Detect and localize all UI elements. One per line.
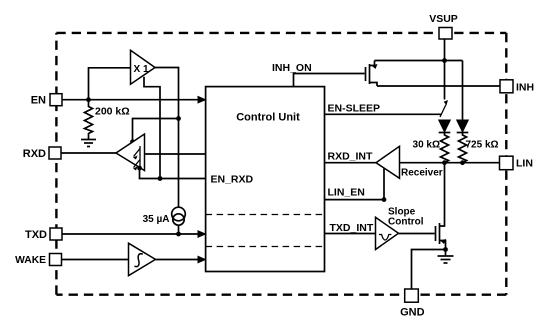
pin INH <box>500 80 534 94</box>
svg-text:RXD_INT: RXD_INT <box>328 151 374 163</box>
wire transistor source to INH pin <box>377 85 500 87</box>
wire LIN node line <box>400 162 500 164</box>
svg-text:TXD: TXD <box>25 229 47 241</box>
svg-text:LIN_EN: LIN_EN <box>328 187 365 199</box>
svg-text:VSUP: VSUP <box>429 13 458 25</box>
pin RXD <box>23 147 61 160</box>
svg-text:Receiver: Receiver <box>401 168 443 179</box>
svg-text:Control: Control <box>388 217 424 228</box>
wire EN-SLEEP from control unit to switch <box>325 103 442 115</box>
junction node EN_RXD / line A <box>158 176 163 181</box>
wire INH_ON from control unit to transistor gate <box>272 62 365 87</box>
slope control driver <box>376 207 424 250</box>
schmitt trigger wake filter <box>129 243 156 276</box>
svg-text:TXD_INT: TXD_INT <box>330 222 374 234</box>
svg-text:EN: EN <box>31 95 46 107</box>
pin WAKE <box>15 254 61 267</box>
junction node on EN line <box>86 97 91 102</box>
junction node driver bottom <box>137 166 142 171</box>
junction node LIN_EN <box>382 197 387 202</box>
pin GND <box>400 289 425 319</box>
resistor 30 kOhm <box>413 133 449 163</box>
receiver comparator <box>376 146 443 178</box>
pin VSUP <box>429 13 458 39</box>
svg-text:INH: INH <box>516 82 534 94</box>
resistor 200 kOhm <box>85 100 130 140</box>
wire current source to TXD line <box>178 225 180 234</box>
control unit partition dashed line 2 <box>206 246 325 248</box>
svg-text:X 1: X 1 <box>134 64 149 75</box>
junction node on line B <box>176 116 181 121</box>
transistor LIN low-side driver <box>436 164 447 249</box>
ground for 200k resistor <box>81 140 96 147</box>
wire schmitt output to control unit with arrowhead <box>156 256 206 262</box>
wire TXD to control unit with arrowhead <box>62 231 205 237</box>
svg-text:200 kΩ: 200 kΩ <box>95 106 130 118</box>
junction node on TXD line <box>176 232 181 237</box>
svg-text:EN_RXD: EN_RXD <box>211 174 254 186</box>
svg-text:WAKE: WAKE <box>15 255 46 266</box>
svg-text:35 µA: 35 µA <box>143 214 170 225</box>
wire transistor drain rail along top <box>375 60 463 62</box>
junction node VSUP / drain rail <box>442 58 447 63</box>
pin EN <box>31 94 62 107</box>
resistor 725 kOhm <box>459 133 499 163</box>
wire VSUP down to switch <box>444 39 446 100</box>
current source 35 uA <box>143 207 186 225</box>
junction node 30k / LIN <box>442 160 447 165</box>
junction node on RXD driver top edge <box>130 139 135 144</box>
control unit U1 <box>206 87 325 272</box>
svg-text:725 kΩ: 725 kΩ <box>466 140 499 151</box>
buffer X1 <box>131 50 156 84</box>
wire enable branch to RXD driver <box>133 119 179 142</box>
svg-text:LIN: LIN <box>516 158 533 170</box>
RXD output driver triangle <box>116 134 145 171</box>
diode D1 <box>439 120 451 133</box>
wire RXD_INT from receiver to control unit <box>325 151 377 163</box>
wire TXD_INT from control unit to slope control <box>325 222 376 234</box>
svg-text:EN-SLEEP: EN-SLEEP <box>328 103 381 115</box>
svg-text:Control Unit: Control Unit <box>236 112 300 124</box>
transistor INH high-side switch <box>366 61 378 87</box>
wire RXD pin to driver apex <box>61 152 116 154</box>
wire right branch down to diode D2 <box>462 61 464 121</box>
junction node 725k / LIN <box>460 160 465 165</box>
wire WAKE to schmitt trigger <box>62 259 129 261</box>
dashed IC boundary <box>56 33 506 295</box>
wire X1 output to current source (vertical line B) <box>155 68 179 208</box>
wire source to GND pin <box>412 250 446 290</box>
wire X1 tap down to EN_RXD (line A) <box>144 77 160 179</box>
junction node source / ground <box>443 247 448 252</box>
wire driver data input from control unit <box>145 153 206 155</box>
svg-text:RXD: RXD <box>23 148 46 160</box>
ground for LIN driver <box>438 250 454 264</box>
control unit partition dashed line 1 <box>206 214 325 216</box>
svg-text:GND: GND <box>400 307 425 319</box>
wire EN to control unit with arrowhead <box>62 97 205 103</box>
switch controlled by EN-SLEEP <box>440 100 448 117</box>
wire EN_RXD from driver bottom to control unit <box>140 168 206 179</box>
svg-text:30 kΩ: 30 kΩ <box>413 140 440 151</box>
svg-text:INH_ON: INH_ON <box>272 62 312 74</box>
pin TXD <box>25 228 62 241</box>
wire slope control output to LIN driver gate <box>399 233 435 235</box>
wire EN junction up to X1 input <box>89 68 131 100</box>
pin LIN <box>500 156 533 170</box>
wire LIN_EN from control unit to receiver enable <box>325 168 385 200</box>
diode D2 <box>457 120 469 133</box>
